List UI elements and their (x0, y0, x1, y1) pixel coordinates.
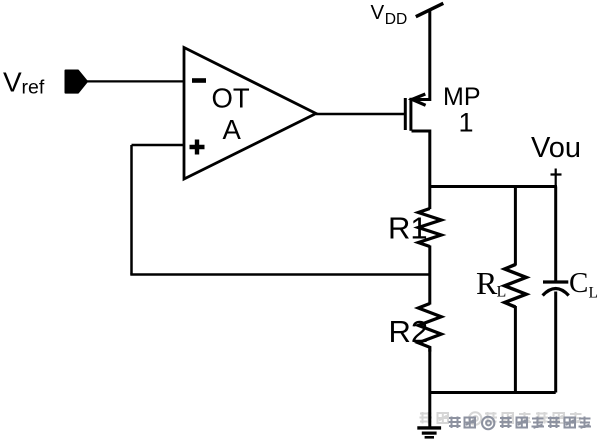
resistor RL (505, 265, 527, 308)
wire CL bottom lead (554, 292, 557, 393)
VDD supply bar (416, 3, 444, 16)
resistor R1 (418, 209, 441, 247)
svg-text:R: R (476, 265, 498, 301)
transistor MP1 drain lead (412, 131, 430, 209)
svg-text:V: V (3, 67, 22, 98)
wire bottom return (430, 391, 556, 394)
wire CL top lead (554, 187, 557, 283)
label CL (569, 267, 598, 302)
watermark dark "头条 @李工谈元器件" (449, 417, 592, 430)
svg-text:L: L (589, 285, 598, 302)
resistor R2 (418, 304, 441, 352)
wire Vref to op-amp inverting input (86, 80, 184, 82)
svg-text:OT: OT (212, 83, 250, 114)
transistor MP1 channel bar (409, 98, 412, 131)
input terminal arrow (Vref) (66, 71, 88, 93)
svg-text:C: C (569, 267, 588, 299)
capacitor CL top plate (543, 280, 568, 283)
svg-text:DD: DD (385, 11, 408, 28)
svg-text:R1: R1 (388, 211, 428, 246)
node Vref label (3, 67, 45, 99)
svg-text:Vou: Vou (531, 132, 581, 164)
transistor MP1 label (443, 83, 481, 138)
wire plus input horizontal (132, 144, 185, 147)
wire RL bottom lead (514, 306, 517, 393)
watermark light "知乎 @李工谈元器件" (420, 412, 583, 425)
wire RL top lead (514, 187, 517, 266)
op-amp minus sign (192, 78, 206, 83)
svg-text:R2: R2 (389, 314, 429, 349)
wire output node horizontal (430, 185, 557, 188)
node VDD label (371, 1, 408, 28)
svg-text:V: V (371, 1, 385, 24)
op-amp label OTA (212, 83, 250, 146)
wire op-amp output to MP1 gate (316, 113, 404, 116)
svg-text:1: 1 (459, 108, 474, 138)
wire VDD to MP1 source (412, 9, 430, 100)
svg-text:L: L (497, 284, 507, 301)
plus polarity tick at Vout (551, 169, 562, 187)
wire R1 to R2 rail (428, 246, 431, 305)
op-amp plus sign (190, 140, 205, 155)
capacitor CL bottom plate (curved) (543, 289, 569, 296)
wire feedback vertical (130, 145, 133, 275)
op-amp U1 triangle (184, 48, 316, 180)
label RL (476, 265, 506, 301)
transistor MP1 source arrow (412, 94, 426, 105)
svg-text:A: A (223, 114, 242, 145)
transistor MP1 gate bar (404, 98, 407, 130)
wire feedback horizontal to divider tap (130, 273, 430, 276)
wire R2 to ground (428, 351, 431, 427)
svg-text:ref: ref (22, 77, 45, 99)
ground symbol (417, 428, 441, 437)
